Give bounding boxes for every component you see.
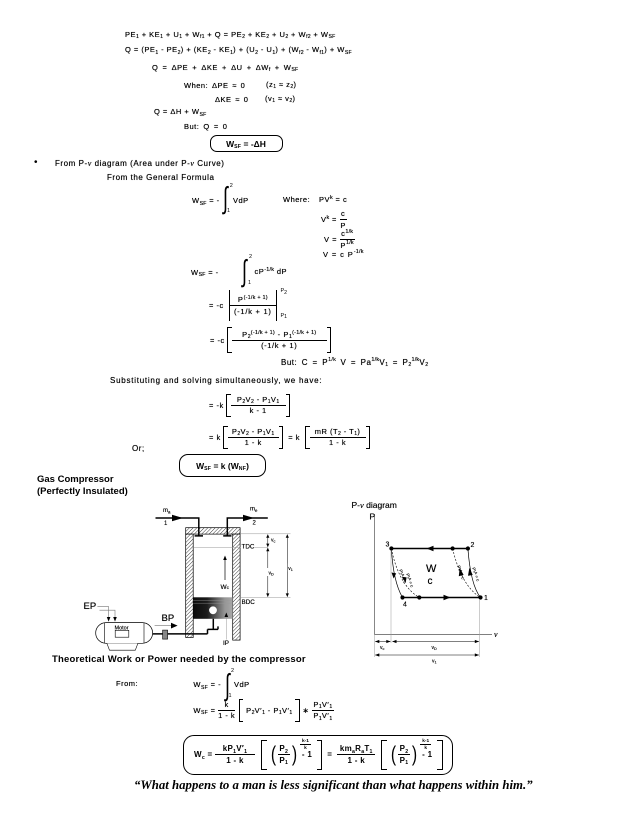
WSF = k/(1-k)[...] — [193, 699, 334, 722]
svg-text:vc: vc — [380, 645, 385, 651]
svg-text:P-v diagram: P-v diagram — [352, 500, 397, 510]
svg-text:4: 4 — [403, 602, 407, 609]
coupling — [163, 630, 168, 639]
connecting rod and crank — [153, 619, 218, 634]
svg-text:TDC: TDC — [242, 544, 255, 551]
box WSF = k(WNF) — [179, 454, 266, 477]
cylinder top plate — [186, 528, 240, 534]
svg-text:v: v — [494, 630, 498, 639]
svg-text:vc: vc — [271, 538, 276, 544]
axes — [375, 514, 492, 635]
motor body — [96, 623, 153, 644]
top equation block — [125, 30, 336, 39]
outlet arrow m_e — [243, 515, 254, 521]
svg-text:ma: ma — [163, 508, 171, 515]
vc dimension — [267, 535, 269, 547]
svg-text:Wc: Wc — [221, 584, 230, 591]
TDC line — [193, 546, 268, 548]
svg-text:1: 1 — [164, 521, 168, 527]
curve 3-4b dashed — [391, 549, 419, 598]
svg-text:3: 3 — [386, 542, 390, 549]
svg-text:c: c — [428, 576, 433, 587]
svg-text:1: 1 — [484, 595, 488, 602]
top extension line — [240, 533, 290, 535]
outlet pipe — [223, 518, 268, 536]
IP arrow — [225, 616, 227, 640]
svg-text:v1: v1 — [432, 659, 437, 665]
motor inner rect — [115, 630, 129, 637]
v1 dimension row — [375, 654, 479, 656]
cylinder right wall — [233, 534, 240, 640]
Wc arrow — [224, 559, 226, 580]
TDC label — [241, 542, 255, 549]
v1 dimension — [286, 535, 288, 597]
curve 2-1 dashed — [453, 549, 481, 598]
svg-text:vD: vD — [432, 645, 438, 651]
bracket equation — [210, 327, 331, 353]
cylinder left wall — [186, 534, 194, 637]
quote — [134, 778, 533, 793]
bottom: From + integral — [116, 679, 138, 688]
svg-text:EP: EP — [84, 601, 97, 612]
vD dimension — [267, 548, 269, 597]
curve arrows — [392, 573, 397, 579]
extension lines — [390, 550, 392, 643]
bullet line — [34, 157, 38, 168]
inlet arrow m_a — [172, 515, 183, 521]
process line 4-1 — [403, 597, 481, 599]
wrist pin — [209, 606, 217, 614]
svg-text:BP: BP — [162, 613, 175, 624]
EP arrows — [97, 607, 108, 618]
vD dimension row — [393, 641, 479, 643]
BDC extension line — [240, 596, 290, 598]
BP arrow — [155, 625, 171, 627]
vc dimension row — [375, 641, 390, 643]
svg-text:BDC: BDC — [242, 599, 256, 606]
curve 3-4 solid — [391, 549, 402, 598]
svg-text:IP: IP — [223, 640, 229, 647]
= k [...] = k [...] — [209, 426, 370, 449]
integral 2 — [191, 268, 219, 277]
integral 1 — [192, 196, 220, 205]
svg-text:PVk = c: PVk = c — [456, 565, 466, 581]
inlet pipe — [156, 518, 204, 536]
svg-text:2: 2 — [471, 542, 475, 549]
compressor diagram — [60, 495, 305, 655]
curve 2-1 solid — [468, 549, 481, 598]
process line 3-2 — [391, 548, 468, 550]
box WSF = -dH — [210, 135, 283, 152]
P-v diagram — [345, 495, 510, 667]
where block — [283, 195, 310, 204]
eval bar equation — [209, 290, 277, 321]
big box — [183, 735, 453, 775]
motor base — [107, 643, 138, 650]
svg-text:2: 2 — [253, 521, 257, 527]
svg-text:W: W — [426, 563, 437, 575]
svg-text:me: me — [250, 507, 258, 514]
